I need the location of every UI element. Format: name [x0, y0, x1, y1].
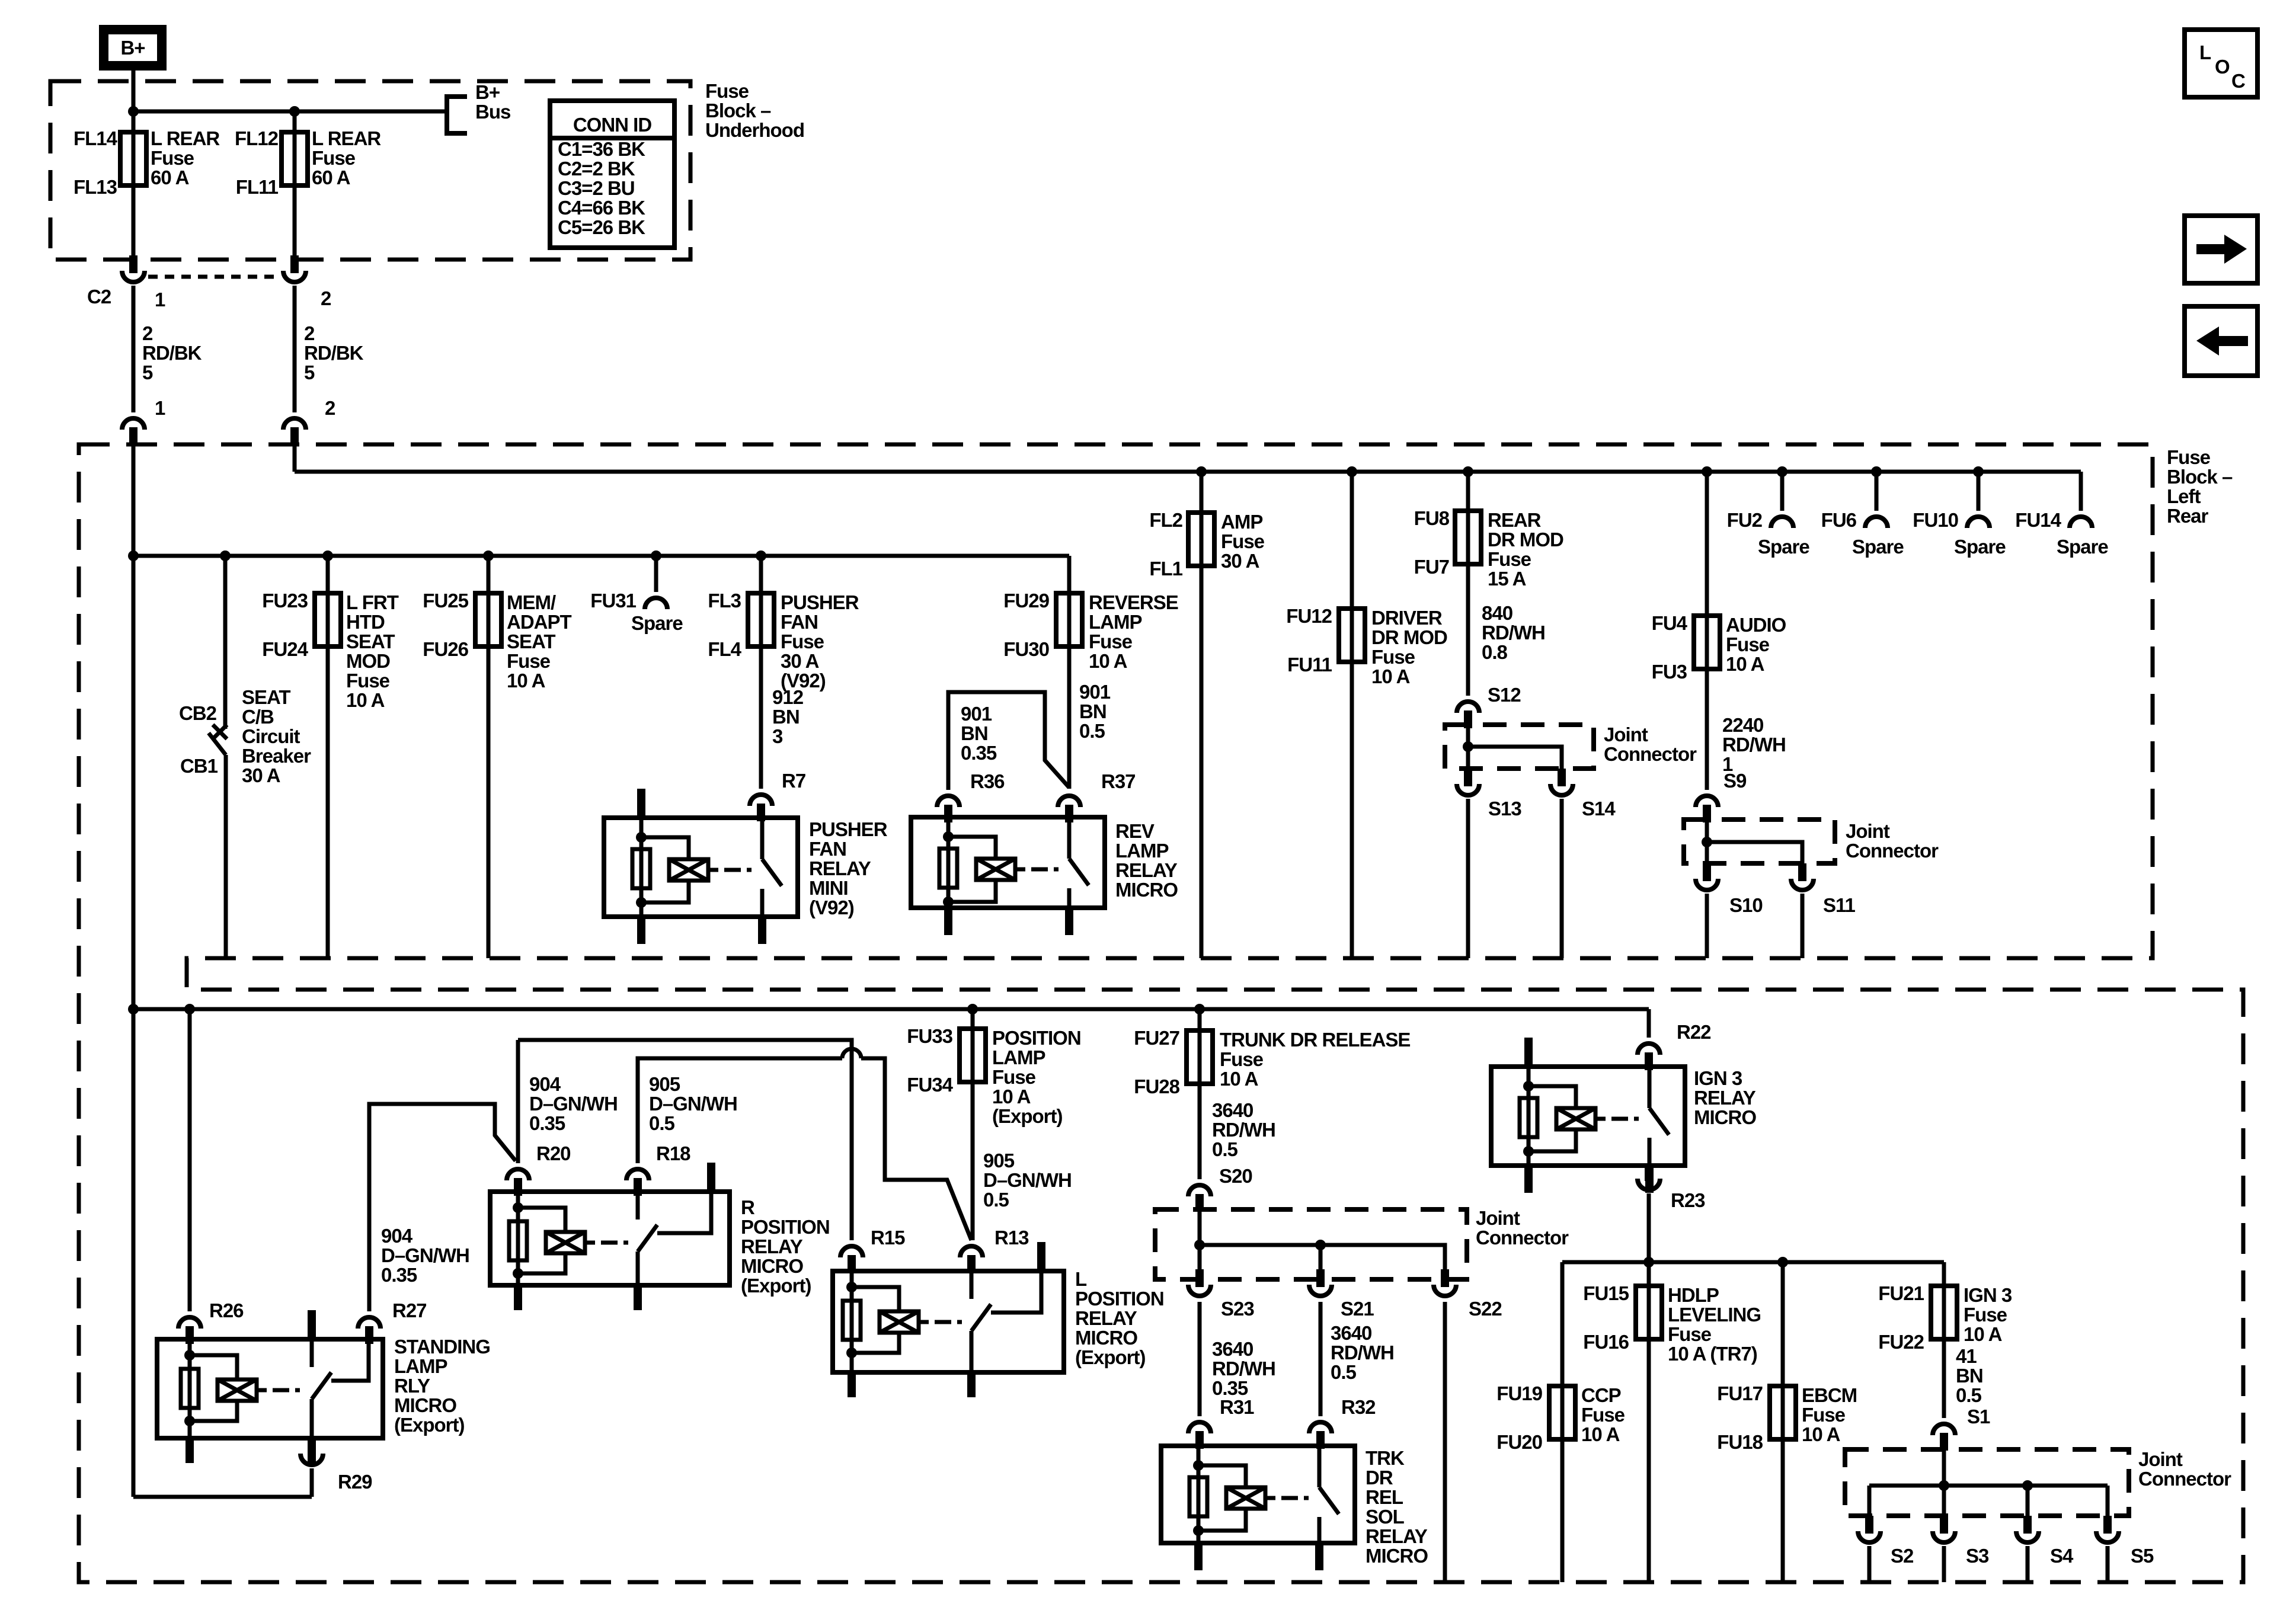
svg-text:0.5: 0.5 [649, 1112, 675, 1134]
svg-text:R15: R15 [871, 1227, 905, 1249]
wire joint connector branch to S14 [1468, 747, 1562, 769]
svg-text:FU10: FU10 [1913, 509, 1958, 531]
wire B+ to fuse block underhood [132, 71, 136, 113]
wire R29 down [310, 1468, 314, 1497]
svg-text:10 A: 10 A [1371, 665, 1410, 687]
svg-text:FU18: FU18 [1717, 1431, 1763, 1453]
svg-text:3640: 3640 [1212, 1338, 1253, 1360]
svg-text:5: 5 [304, 361, 315, 383]
svg-text:BN: BN [961, 722, 988, 744]
node joint connector S20-S23 [1194, 1240, 1205, 1250]
svg-text:MOD: MOD [346, 650, 390, 672]
wire to R26 [188, 1009, 192, 1311]
svg-text:RELAY: RELAY [809, 857, 871, 879]
relay TRK DR REL SOL box [1161, 1446, 1355, 1543]
svg-text:Spare: Spare [1852, 536, 1904, 558]
svg-text:R32: R32 [1341, 1396, 1376, 1418]
svg-text:S20: S20 [1219, 1165, 1252, 1187]
svg-text:2: 2 [321, 287, 331, 309]
svg-text:1: 1 [155, 397, 165, 419]
wire S3 to border [1942, 1546, 1946, 1582]
connector C2 dotted body line [148, 275, 281, 279]
svg-text:C4=66 BK: C4=66 BK [558, 197, 645, 219]
svg-text:EBCM: EBCM [1802, 1384, 1857, 1406]
svg-text:FU21: FU21 [1878, 1282, 1924, 1304]
wire bottom-left return to R29 [133, 1495, 312, 1499]
relay PUSHER FAN bottom pin stubs [637, 917, 645, 944]
wire R20 riser [516, 1040, 520, 1163]
svg-text:FU2: FU2 [1727, 509, 1763, 531]
connector R31 [1188, 1422, 1211, 1433]
svg-text:FU27: FU27 [1134, 1027, 1179, 1049]
svg-text:D–GN/WH: D–GN/WH [381, 1244, 469, 1266]
svg-text:Fuse: Fuse [1964, 1304, 2007, 1326]
svg-text:FU12: FU12 [1286, 605, 1332, 627]
connector R7 [750, 795, 772, 806]
svg-text:MICRO: MICRO [1694, 1106, 1756, 1128]
svg-text:SOL: SOL [1366, 1506, 1405, 1528]
svg-text:C3=2 BU: C3=2 BU [558, 177, 635, 199]
svg-text:S21: S21 [1341, 1298, 1374, 1320]
svg-text:Fuse: Fuse [312, 147, 356, 169]
svg-text:LEVELING: LEVELING [1668, 1304, 1761, 1326]
svg-text:S9: S9 [1723, 770, 1747, 792]
svg-text:RD/WH: RD/WH [1212, 1358, 1275, 1379]
svg-text:Spare: Spare [631, 612, 683, 634]
svg-text:840: 840 [1482, 602, 1512, 624]
fuse FU27/FU28 TRUNK DR RELEASE 10A [1194, 1004, 1205, 1014]
svg-text:IGN 3: IGN 3 [1964, 1284, 2012, 1306]
connector R26 [178, 1317, 201, 1329]
svg-text:S14: S14 [1582, 798, 1616, 820]
relay STANDING LAMP switch [310, 1339, 314, 1367]
svg-text:Fuse: Fuse [346, 670, 390, 692]
svg-text:10 A: 10 A [346, 689, 385, 711]
fuse FU29/FU30 REVERSE LAMP 10A [1067, 556, 1072, 789]
connector lower half circuit 2 [283, 418, 306, 430]
svg-text:0.5: 0.5 [1079, 720, 1105, 742]
svg-text:LAMP: LAMP [1115, 840, 1169, 862]
svg-text:FL12: FL12 [235, 127, 279, 149]
svg-text:Connector: Connector [1846, 840, 1939, 862]
svg-text:R36: R36 [970, 770, 1005, 792]
svg-text:30 A: 30 A [1221, 550, 1259, 572]
svg-text:LAMP: LAMP [992, 1046, 1045, 1068]
svg-text:30 A: 30 A [781, 650, 819, 672]
svg-text:Rear: Rear [2167, 505, 2209, 527]
svg-text:S22: S22 [1469, 1298, 1502, 1320]
svg-text:901: 901 [961, 703, 992, 725]
svg-text:MICRO: MICRO [1075, 1327, 1137, 1349]
svg-text:0.35: 0.35 [529, 1112, 565, 1134]
spare terminal FU14 [2079, 472, 2083, 511]
svg-text:S2: S2 [1891, 1545, 1914, 1567]
svg-text:904: 904 [381, 1225, 413, 1247]
svg-text:FL11: FL11 [236, 176, 279, 198]
wire S4 drop [2026, 1486, 2030, 1516]
svg-text:FU19: FU19 [1496, 1382, 1542, 1404]
relay STANDING LAMP box [157, 1339, 383, 1438]
relay REV LAMP bottom pin stubs [944, 908, 952, 935]
svg-text:10 A: 10 A [1964, 1323, 2002, 1345]
spare terminal FU10 [1973, 466, 1984, 477]
svg-text:FL13: FL13 [73, 176, 117, 198]
svg-text:D–GN/WH: D–GN/WH [649, 1093, 737, 1115]
fuse FU23/FU24 L FRT HTD SEAT MOD 10A [322, 550, 333, 561]
svg-text:0.35: 0.35 [961, 742, 997, 764]
wire R18 riser and link to R13 [638, 1058, 971, 1240]
relay TRK DR REL SOL switch [1318, 1446, 1322, 1487]
joint connector S9/S10/S11 dashed box [1684, 820, 1835, 863]
svg-text:SEAT: SEAT [346, 630, 395, 652]
relay PUSHER FAN RELAY MINI coil pin stub [637, 789, 645, 818]
svg-text:2: 2 [304, 322, 315, 344]
relay STANDING LAMP switch pin stub [308, 1310, 316, 1339]
svg-text:Fuse: Fuse [151, 147, 194, 169]
svg-text:FL3: FL3 [708, 590, 741, 612]
svg-text:L REAR: L REAR [312, 127, 381, 149]
svg-text:0.5: 0.5 [1956, 1384, 1982, 1406]
wire S23 to R31 [1198, 1302, 1202, 1416]
svg-text:ADAPT: ADAPT [507, 611, 572, 633]
wire S1 through joint connector [1942, 1449, 1946, 1516]
wire S2 drop [1868, 1486, 1872, 1516]
svg-text:REAR: REAR [1488, 509, 1542, 531]
svg-text:10 A (TR7): 10 A (TR7) [1668, 1343, 1757, 1365]
svg-text:FU23: FU23 [262, 590, 308, 612]
svg-text:FU15: FU15 [1583, 1282, 1629, 1304]
relay PUSHER FAN switch [760, 818, 765, 859]
svg-text:RELAY: RELAY [1075, 1307, 1137, 1329]
svg-text:REL: REL [1366, 1486, 1403, 1508]
node joint connector S12 [1463, 741, 1473, 752]
svg-text:R18: R18 [656, 1142, 690, 1164]
svg-text:S5: S5 [2131, 1545, 2154, 1567]
wire S14 down [1560, 799, 1564, 958]
svg-text:912: 912 [772, 686, 804, 708]
svg-text:FU28: FU28 [1134, 1076, 1179, 1097]
CONN ID table [550, 101, 674, 248]
fuse FU25/FU26 MEM/ADAPT SEAT 10A [483, 550, 494, 561]
relay L POSITION switch [970, 1271, 974, 1299]
svg-text:905: 905 [983, 1150, 1015, 1172]
svg-text:C1=36 BK: C1=36 BK [558, 138, 645, 160]
wire joint connector branch to S11 [1707, 842, 1802, 863]
joint connector S20/S21/S22/S23 dashed box [1155, 1209, 1467, 1279]
svg-text:2240: 2240 [1722, 714, 1763, 736]
svg-text:R22: R22 [1677, 1021, 1711, 1043]
fuse FU8/FU7 REAR DR MOD 15A [1463, 466, 1473, 477]
svg-text:REV: REV [1115, 820, 1155, 842]
wire R27 to R20 (904 D-GN/WH) [369, 1104, 516, 1311]
node junction FL12 tap [289, 106, 300, 117]
svg-text:STANDING: STANDING [394, 1336, 490, 1358]
svg-text:Fuse: Fuse [1221, 530, 1265, 552]
svg-text:D–GN/WH: D–GN/WH [529, 1093, 618, 1115]
svg-text:FU25: FU25 [423, 590, 468, 612]
relay STANDING LAMP coil circuit [184, 1350, 195, 1361]
connector R27 [358, 1317, 380, 1329]
bus second (feeds CB FU23 FU25 FU31 FL3 FU29) [133, 554, 1069, 558]
svg-text:Joint: Joint [1846, 820, 1890, 842]
joint connector S12/S13/S14 dashed box [1445, 725, 1594, 769]
splice S23 [1188, 1285, 1211, 1296]
relay TRK DR REL SOL bottom pin stubs [1194, 1543, 1203, 1570]
svg-text:B+: B+ [120, 37, 145, 59]
svg-text:REVERSE: REVERSE [1089, 591, 1178, 613]
svg-text:DR MOD: DR MOD [1371, 626, 1447, 648]
svg-text:2: 2 [325, 397, 335, 419]
wire link R20 to R15 [518, 1040, 852, 1240]
power symbol B+ [99, 25, 167, 71]
svg-text:FU22: FU22 [1878, 1331, 1924, 1353]
svg-text:C: C [2231, 70, 2245, 92]
fusible link FL12/FL11 L REAR Fuse 60A [293, 111, 297, 261]
svg-text:RELAY: RELAY [1694, 1087, 1756, 1109]
svg-text:FU17: FU17 [1717, 1382, 1763, 1404]
splice S9 [1696, 796, 1718, 807]
svg-text:FU4: FU4 [1652, 612, 1688, 634]
svg-text:Connector: Connector [1604, 743, 1697, 765]
svg-text:FU11: FU11 [1287, 654, 1332, 676]
svg-text:RD/WH: RD/WH [1331, 1342, 1394, 1363]
wire S21 drop [1319, 1245, 1323, 1279]
svg-text:15 A: 15 A [1488, 568, 1526, 590]
relay REV LAMP switch [1067, 817, 1072, 859]
svg-text:FU29: FU29 [1003, 590, 1049, 612]
svg-text:FU31: FU31 [590, 590, 636, 612]
svg-text:SEAT: SEAT [507, 630, 555, 652]
splice S20 [1188, 1185, 1211, 1196]
svg-text:RLY: RLY [394, 1375, 430, 1397]
fuse FU15/FU16 HDLP LEVELING 10A TR7 [1647, 1262, 1651, 1582]
svg-text:Connector: Connector [2138, 1468, 2231, 1490]
wire S22 down to border [1443, 1302, 1447, 1582]
splice S22 [1434, 1285, 1456, 1296]
svg-text:Joint: Joint [1476, 1207, 1520, 1229]
connector R22 [1638, 1044, 1660, 1055]
svg-text:RD/BK: RD/BK [142, 342, 202, 364]
fuse FU12/FU11 DRIVER DR MOD 10A [1347, 466, 1357, 477]
relay IGN 3 bottom pin stubs [1524, 1166, 1533, 1193]
splice S1 [1933, 1424, 1955, 1435]
svg-text:S13: S13 [1488, 798, 1521, 820]
fuse FL2/FL1 AMP 30A [1196, 466, 1207, 477]
svg-text:Fuse: Fuse [1802, 1404, 1846, 1426]
svg-text:L REAR: L REAR [151, 127, 220, 149]
svg-text:MICRO: MICRO [741, 1255, 803, 1277]
connector R29 [308, 1438, 316, 1452]
wire R23 to lower bus [1647, 1193, 1651, 1262]
svg-text:R27: R27 [392, 1299, 427, 1321]
svg-text:Block –: Block – [2167, 466, 2233, 488]
svg-text:901: 901 [1079, 681, 1111, 703]
svg-text:FU24: FU24 [262, 638, 308, 660]
svg-text:TRUNK DR RELEASE: TRUNK DR RELEASE [1220, 1029, 1410, 1051]
svg-text:Underhood: Underhood [705, 119, 804, 141]
wire B+ bus feed [133, 110, 447, 114]
svg-text:FL4: FL4 [708, 638, 741, 660]
dashed box Fuse Block - Underhood [50, 81, 690, 260]
svg-text:RELAY: RELAY [1115, 859, 1178, 881]
svg-text:RD/WH: RD/WH [1482, 622, 1545, 644]
connector C2 cavity 1 upper half [129, 258, 137, 273]
circuit breaker CB2/CB1 SEAT C/B 30A [220, 550, 231, 561]
LOC reference box [2185, 30, 2257, 97]
svg-text:FU34: FU34 [907, 1074, 953, 1096]
svg-text:AMP: AMP [1221, 511, 1262, 533]
splice S4 [2023, 1516, 2032, 1531]
fuse FU4/FU3 AUDIO 10A [1702, 466, 1712, 477]
svg-text:Fuse: Fuse [1089, 630, 1133, 652]
relay STANDING LAMP bottom pin stubs [186, 1438, 194, 1463]
bus lower right block [1562, 1260, 1944, 1265]
node joint connector S21 tap [1315, 1240, 1326, 1250]
svg-text:MICRO: MICRO [394, 1394, 456, 1416]
svg-text:R37: R37 [1101, 770, 1136, 792]
svg-text:Fuse: Fuse [1488, 548, 1531, 570]
svg-text:FU20: FU20 [1496, 1431, 1542, 1453]
svg-text:FU30: FU30 [1003, 638, 1049, 660]
svg-text:CB1: CB1 [180, 755, 218, 777]
bus top (feeds FL2 FU12 FU8 FU4 spares) [295, 470, 2081, 474]
connector R37 [1058, 796, 1080, 807]
wire 2 RD/BK 5 circuit 2 [293, 286, 297, 412]
svg-text:CCP: CCP [1581, 1384, 1621, 1406]
svg-text:0.5: 0.5 [1331, 1361, 1357, 1383]
svg-text:RELAY: RELAY [1366, 1525, 1428, 1547]
svg-text:RELAY: RELAY [741, 1235, 803, 1257]
svg-text:S11: S11 [1823, 894, 1856, 916]
relay L POSITION third pin stub [1037, 1242, 1045, 1271]
svg-text:O: O [2215, 56, 2230, 78]
svg-text:B+: B+ [475, 81, 500, 103]
relay R POSITION third pin stub [707, 1163, 715, 1192]
svg-text:S12: S12 [1488, 684, 1521, 706]
connector R32 [1309, 1422, 1332, 1433]
svg-text:R13: R13 [994, 1227, 1029, 1249]
svg-text:905: 905 [649, 1073, 680, 1095]
svg-text:C/B: C/B [242, 706, 274, 728]
svg-text:C2: C2 [87, 286, 111, 308]
connector R15 [840, 1246, 863, 1257]
svg-text:R7: R7 [782, 770, 805, 792]
svg-text:DR: DR [1366, 1467, 1393, 1489]
svg-text:10 A: 10 A [1220, 1068, 1258, 1090]
svg-text:Connector: Connector [1476, 1227, 1569, 1249]
svg-text:FAN: FAN [809, 838, 846, 860]
splice S14 [1558, 769, 1566, 784]
splice S21 [1309, 1285, 1332, 1296]
wire circuit 1 main left vertical [132, 441, 136, 1497]
svg-text:POSITION: POSITION [1075, 1288, 1164, 1310]
svg-text:Bus: Bus [475, 101, 510, 123]
wire S4 to border [2026, 1546, 2030, 1582]
relay REV LAMP coil circuit [943, 831, 954, 842]
fuse FU19/FU20 CCP 10A [1560, 1262, 1565, 1582]
svg-text:2: 2 [142, 322, 153, 344]
fusible link FL14/FL13 L REAR Fuse 60A [132, 111, 136, 261]
svg-text:30 A: 30 A [242, 764, 280, 786]
svg-text:Fuse: Fuse [1668, 1323, 1712, 1345]
svg-text:3640: 3640 [1212, 1099, 1253, 1121]
fuse FU21/FU22 IGN 3 10A [1942, 1262, 1946, 1418]
svg-text:Fuse: Fuse [1220, 1048, 1264, 1070]
svg-text:Circuit: Circuit [242, 725, 300, 747]
svg-text:1: 1 [155, 289, 165, 311]
svg-text:D–GN/WH: D–GN/WH [983, 1169, 1072, 1191]
svg-text:Joint: Joint [1604, 724, 1648, 745]
svg-text:0.5: 0.5 [983, 1189, 1009, 1211]
spare terminal FU6 [1871, 466, 1882, 477]
svg-text:BN: BN [1956, 1365, 1983, 1387]
wire S5 drop [2106, 1486, 2110, 1516]
svg-text:HDLP: HDLP [1668, 1284, 1719, 1306]
svg-text:0.8: 0.8 [1482, 641, 1508, 663]
connector R36 [937, 796, 960, 807]
wire joint connector bar [1869, 1484, 2108, 1488]
svg-text:IGN 3: IGN 3 [1694, 1067, 1742, 1089]
svg-text:POSITION: POSITION [992, 1027, 1081, 1049]
svg-text:L: L [2199, 41, 2211, 63]
splice S13 [1464, 769, 1472, 784]
svg-text:Fuse: Fuse [705, 80, 749, 102]
relay IGN 3 switch [1648, 1067, 1652, 1108]
svg-text:FL2: FL2 [1149, 509, 1182, 531]
svg-text:CONN ID: CONN ID [573, 114, 652, 136]
node junction on B+ feed [128, 106, 139, 117]
svg-text:FL14: FL14 [73, 127, 118, 149]
svg-text:LAMP: LAMP [1089, 611, 1142, 633]
wire S5 to border [2106, 1546, 2110, 1582]
svg-text:Fuse: Fuse [781, 630, 824, 652]
svg-text:FU6: FU6 [1821, 509, 1857, 531]
svg-text:60 A: 60 A [151, 167, 189, 188]
relay REV LAMP box [911, 817, 1105, 908]
svg-text:10 A: 10 A [1726, 653, 1764, 675]
svg-text:FU7: FU7 [1414, 556, 1449, 578]
connector R18 [626, 1169, 649, 1180]
svg-text:PUSHER: PUSHER [781, 591, 859, 613]
wire S20 through joint connector [1198, 1211, 1202, 1279]
svg-text:L: L [1075, 1268, 1087, 1290]
wire S9 through joint connector [1705, 822, 1709, 863]
svg-text:Block –: Block – [705, 100, 771, 121]
svg-text:MICRO: MICRO [1115, 879, 1178, 901]
svg-text:Fuse: Fuse [507, 650, 551, 672]
svg-text:TRK: TRK [1366, 1447, 1405, 1469]
relay TRK DR REL SOL coil circuit [1193, 1460, 1204, 1471]
svg-text:Left: Left [2167, 485, 2201, 507]
node joint connector S1-S3 [1939, 1480, 1949, 1491]
splice S10 [1703, 863, 1711, 879]
svg-text:FU33: FU33 [907, 1025, 952, 1047]
svg-text:(Export): (Export) [992, 1105, 1063, 1127]
svg-text:FU14: FU14 [2015, 509, 2061, 531]
svg-text:Fuse: Fuse [1726, 633, 1770, 655]
relay R POSITION bottom pin stubs [514, 1285, 522, 1310]
splice S3 [1940, 1516, 1948, 1531]
svg-text:Spare: Spare [2057, 536, 2108, 558]
B+ Bus terminal symbol [447, 97, 467, 133]
svg-text:(Export): (Export) [741, 1275, 811, 1297]
svg-text:3640: 3640 [1331, 1322, 1371, 1344]
relay IGN 3 box [1491, 1067, 1685, 1166]
svg-text:(V92): (V92) [809, 897, 854, 918]
svg-text:10 A: 10 A [507, 670, 545, 692]
svg-text:R26: R26 [209, 1299, 244, 1321]
svg-text:Spare: Spare [1758, 536, 1809, 558]
